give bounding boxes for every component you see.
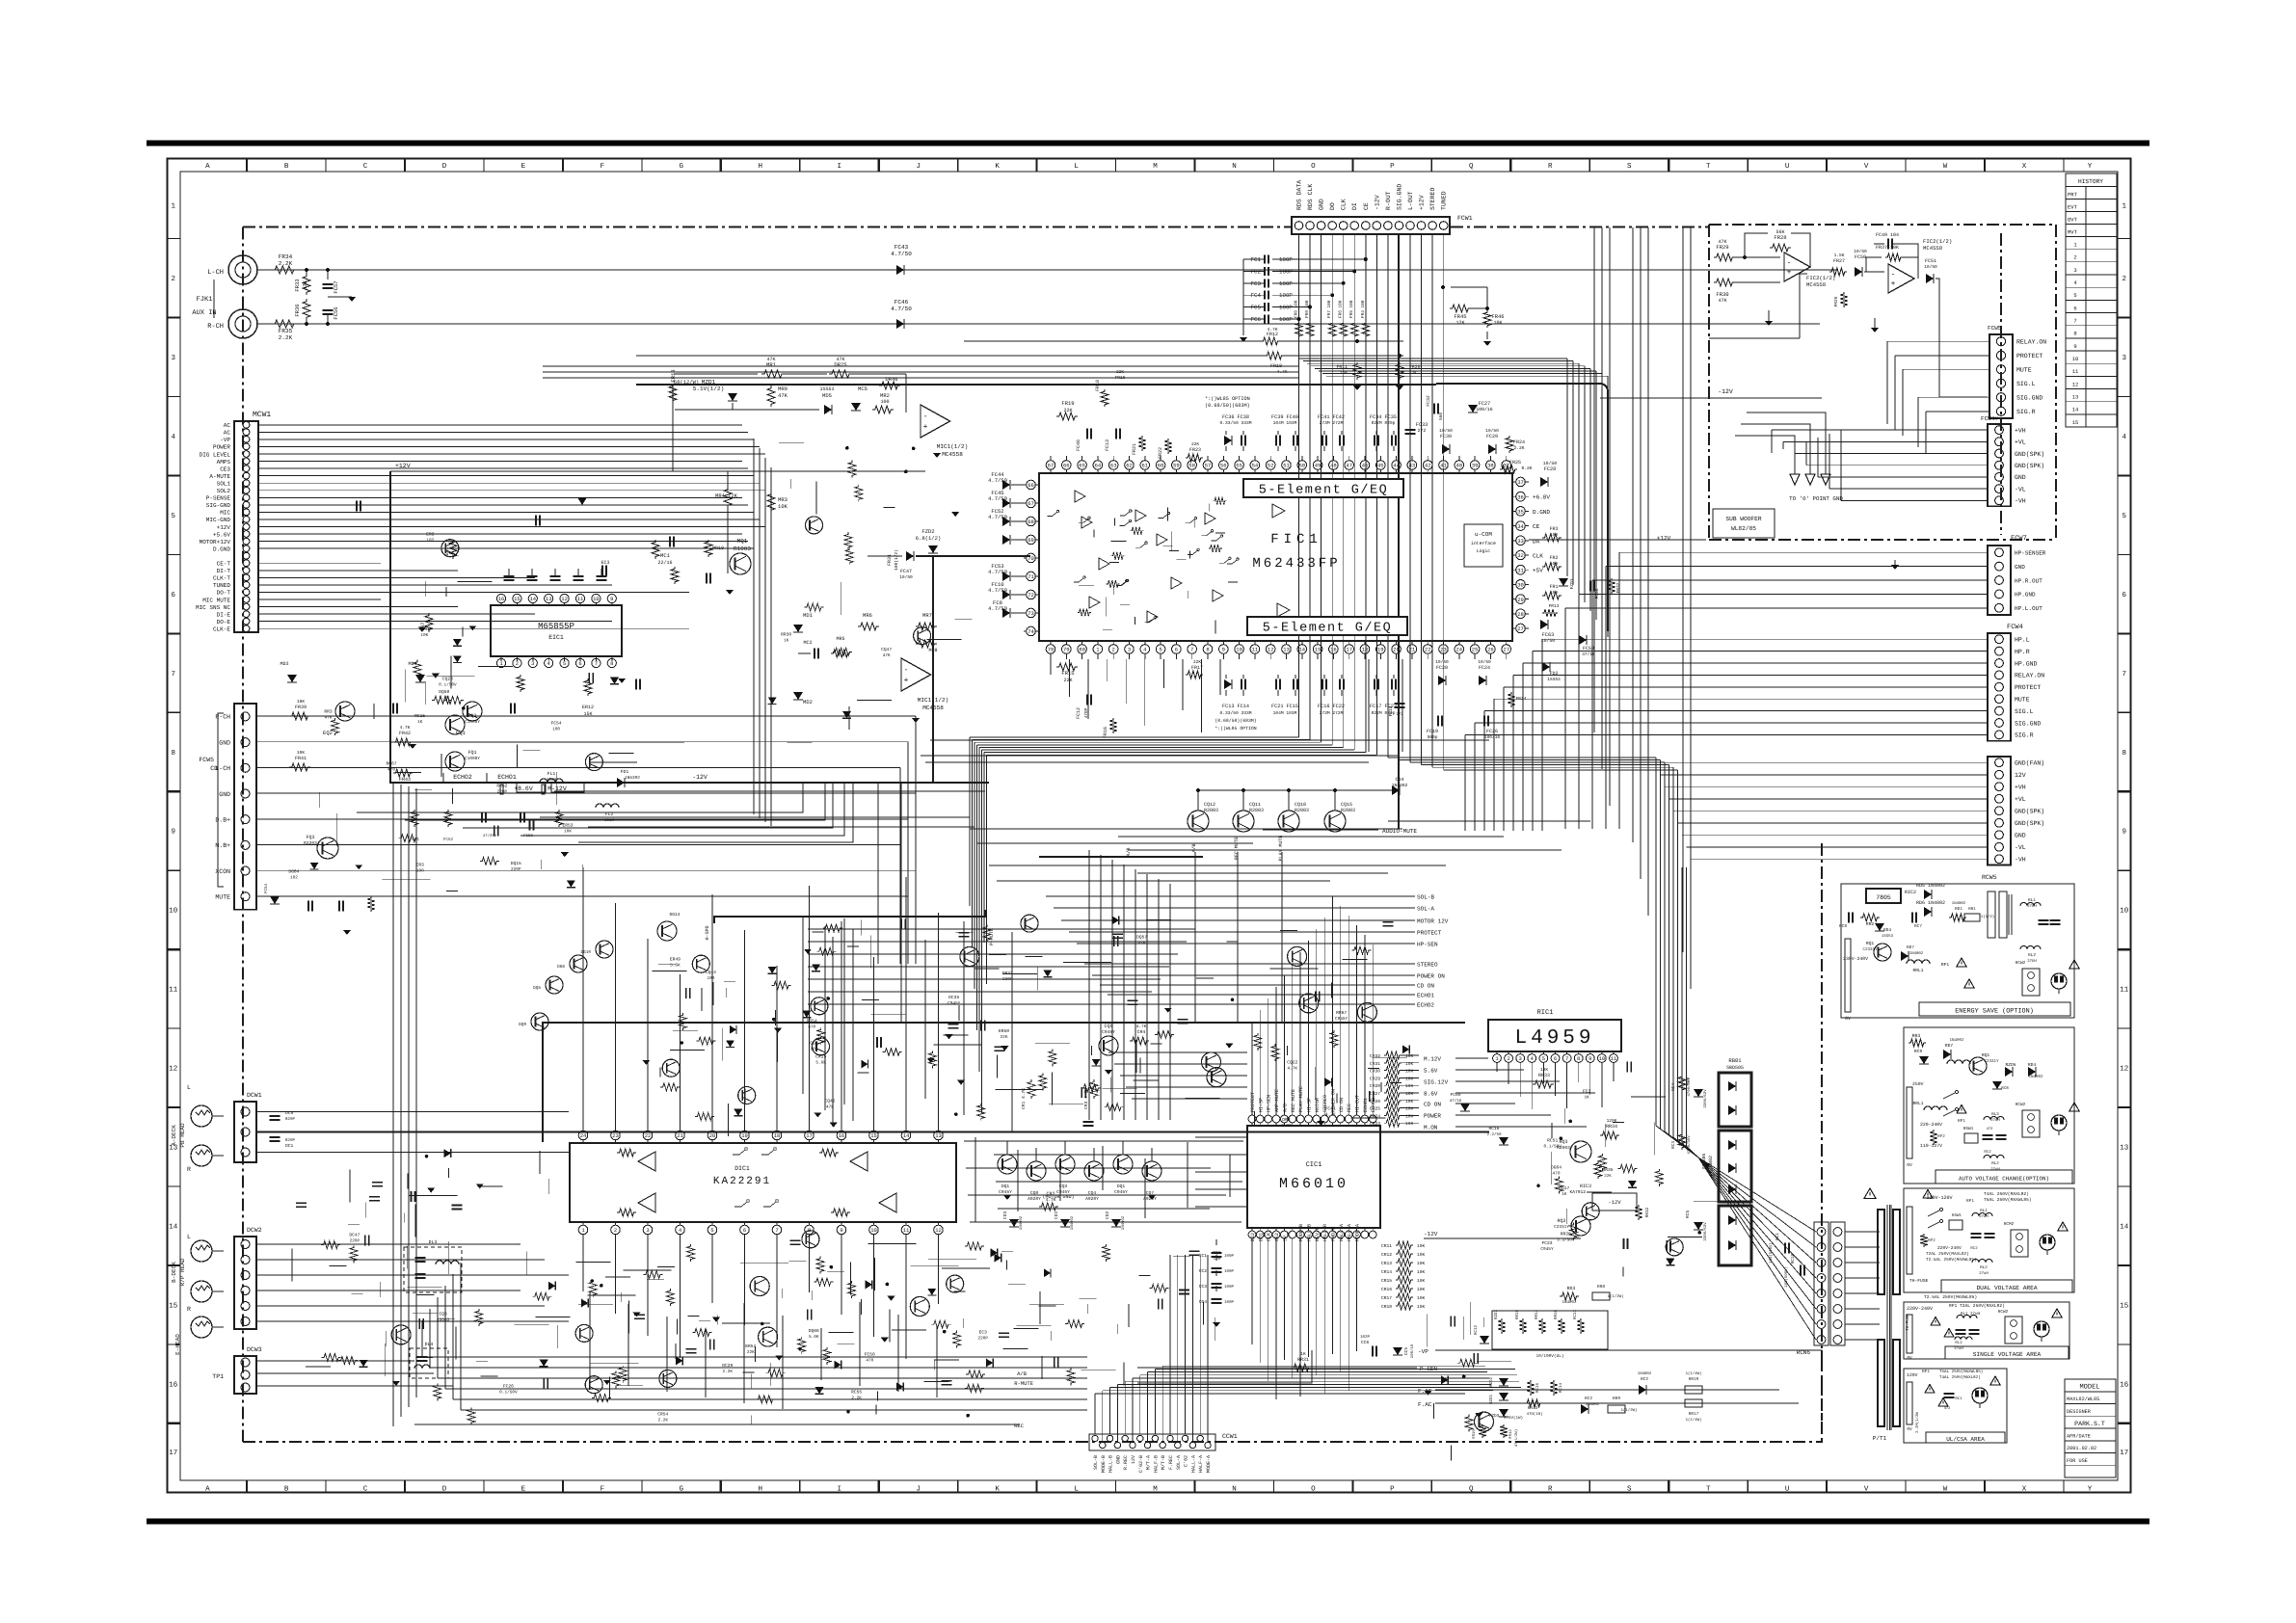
svg-text:14: 14: [2120, 1224, 2129, 1232]
svg-text:1N4002: 1N4002: [2028, 1075, 2043, 1079]
svg-text:GND(SPK): GND(SPK): [2015, 809, 2044, 815]
svg-text:GND: GND: [219, 739, 230, 746]
svg-text:C: C: [363, 1485, 368, 1494]
svg-text:17: 17: [806, 1132, 813, 1139]
svg-text:AMP-MUTE: AMP-MUTE: [1274, 1089, 1280, 1112]
svg-text:E: E: [521, 1486, 526, 1494]
svg-text:RD4: RD4: [1883, 928, 1891, 933]
svg-text:EC3: EC3: [601, 560, 609, 566]
svg-text:OVT: OVT: [2068, 217, 2078, 224]
svg-text:11: 11: [169, 987, 178, 995]
svg-text:KA22291: KA22291: [713, 1176, 771, 1187]
svg-text:61: 61: [1141, 463, 1148, 469]
svg-text:100: 100: [416, 869, 424, 874]
svg-text:17: 17: [1346, 647, 1352, 653]
svg-text:B: B: [284, 163, 289, 171]
svg-text:23: 23: [612, 1132, 619, 1139]
svg-text:2: 2: [1507, 1055, 1509, 1062]
svg-text:10/50: 10/50: [1439, 428, 1453, 434]
svg-text:58: 58: [1188, 463, 1195, 469]
svg-text:L: L: [187, 1084, 191, 1091]
svg-text:TUNED: TUNED: [213, 582, 230, 589]
svg-text:7: 7: [1190, 647, 1193, 653]
svg-text:R-MUTE: R-MUTE: [1014, 1380, 1034, 1387]
svg-text:10uH: 10uH: [604, 818, 615, 823]
svg-text:42: 42: [1425, 463, 1431, 469]
svg-text:DQ5: DQ5: [533, 986, 541, 991]
svg-text:120V: 120V: [1907, 1372, 1918, 1378]
svg-text:2.2K: 2.2K: [851, 1396, 862, 1400]
svg-text:FC54: FC54: [551, 720, 562, 726]
svg-text:10K: 10K: [1405, 1076, 1414, 1081]
svg-text:1K: 1K: [1585, 1095, 1590, 1100]
svg-text:M.ON: M.ON: [1424, 1125, 1438, 1131]
svg-text:CR16: CR16: [1381, 1287, 1392, 1292]
svg-text:6: 6: [172, 591, 176, 599]
svg-text:DI: DI: [1351, 202, 1358, 210]
svg-text:1.5K: 1.5K: [1834, 253, 1845, 258]
svg-text:5V: 5V: [1282, 1236, 1288, 1241]
svg-text:DI-E: DI-E: [217, 611, 231, 618]
svg-text:2.2K: 2.2K: [723, 1370, 734, 1374]
svg-text:C: C: [363, 162, 368, 171]
svg-text:22: 22: [645, 1132, 652, 1139]
svg-text:10K: 10K: [1417, 1278, 1426, 1284]
svg-text:MODE.A: MODE.A: [1355, 1224, 1361, 1241]
svg-text:CR11: CR11: [1381, 1243, 1392, 1249]
svg-text:CD ON: CD ON: [1339, 1098, 1345, 1112]
svg-text:1K: 1K: [1562, 1192, 1567, 1197]
svg-text:REC MUTE: REC MUTE: [1234, 837, 1240, 860]
svg-text:EVT: EVT: [2068, 204, 2078, 211]
svg-text:RC14: RC14: [1559, 1382, 1563, 1393]
svg-text:RC3: RC3: [1671, 1141, 1676, 1149]
svg-text:CE-T: CE-T: [217, 561, 231, 568]
svg-text:67: 67: [1028, 500, 1034, 507]
svg-text:9: 9: [610, 596, 613, 602]
svg-text:MAXL82/WL85: MAXL82/WL85: [2067, 1397, 2099, 1402]
svg-text:N: N: [1232, 163, 1237, 171]
svg-text:CD3: CD3: [1002, 1211, 1008, 1220]
svg-text:110-127V: 110-127V: [1920, 1143, 1942, 1149]
svg-text:DL4: DL4: [425, 1342, 434, 1347]
svg-text:PROTECT: PROTECT: [1250, 1092, 1256, 1112]
svg-text:DO-T: DO-T: [217, 590, 231, 597]
svg-text:100P: 100P: [1224, 1254, 1235, 1259]
svg-text:49: 49: [1315, 463, 1322, 469]
svg-text:C2331Y: C2331Y: [1862, 947, 1878, 952]
svg-text:V: V: [1864, 1486, 1869, 1494]
svg-text:10K: 10K: [778, 503, 788, 510]
svg-text:10K: 10K: [1417, 1304, 1426, 1310]
svg-text:7: 7: [775, 1227, 778, 1234]
svg-text:FC50: FC50: [1855, 254, 1866, 260]
svg-text:V: V: [1864, 163, 1869, 171]
svg-text:10: 10: [870, 1227, 877, 1234]
svg-text:C945Y: C945Y: [1114, 1189, 1128, 1195]
svg-text:CR25: CR25: [1370, 1106, 1380, 1112]
svg-text:DQ66: DQ66: [809, 1328, 819, 1334]
svg-text:A/B: A/B: [1126, 847, 1132, 856]
svg-text:FC41: FC41: [1325, 1105, 1336, 1111]
svg-text:6: 6: [1175, 647, 1178, 653]
svg-text:220P: 220P: [1002, 977, 1013, 982]
svg-text:+5.6V: +5.6V: [213, 531, 230, 538]
svg-text:CR23: CR23: [1370, 1121, 1380, 1127]
svg-text:64: 64: [1095, 463, 1102, 469]
svg-text:102: 102: [426, 538, 434, 543]
svg-text:R2203: R2203: [304, 840, 317, 846]
svg-text:RC2: RC2: [1984, 1150, 1991, 1155]
svg-text:M65855P: M65855P: [538, 622, 574, 631]
svg-text:H: H: [759, 163, 763, 171]
svg-text:9: 9: [2122, 828, 2127, 837]
svg-text:MUTE: MUTE: [2016, 367, 2032, 374]
svg-text:+VH: +VH: [2015, 427, 2026, 434]
svg-text:54: 54: [1252, 463, 1259, 469]
svg-text:1K: 1K: [1300, 1352, 1306, 1357]
svg-text:C1008Y: C1008Y: [465, 757, 480, 761]
svg-text:FC56: FC56: [333, 306, 339, 319]
svg-text:RF1: RF1: [1966, 1199, 1974, 1204]
svg-text:MR3: MR3: [778, 496, 788, 503]
svg-text:100P: 100P: [1224, 1269, 1235, 1274]
svg-text:MR6: MR6: [863, 612, 872, 619]
svg-text:H-SPD: H-SPD: [705, 925, 710, 940]
svg-text:+12V: +12V: [217, 524, 231, 531]
svg-text:5: 5: [1542, 1055, 1545, 1062]
svg-text:DC35: DC35: [948, 995, 959, 1000]
svg-text:100/16: 100/16: [1484, 734, 1501, 740]
svg-text:3: 3: [1519, 1055, 1522, 1062]
svg-text:HALF-A: HALF-A: [1198, 1455, 1204, 1473]
svg-text:FR3: FR3: [1549, 526, 1558, 532]
svg-text:PROTECT: PROTECT: [1417, 930, 1442, 937]
svg-text:SOL-A: SOL-A: [1176, 1455, 1182, 1470]
svg-text:44: 44: [1393, 463, 1400, 469]
svg-text:21: 21: [1409, 647, 1416, 653]
svg-text:1N4002: 1N4002: [1562, 1300, 1577, 1305]
svg-text:RC2: RC2: [1585, 1397, 1592, 1401]
svg-text:L4959: L4959: [1514, 1027, 1594, 1050]
svg-text:7: 7: [1565, 1055, 1568, 1062]
svg-text:U: U: [1785, 1486, 1790, 1494]
svg-text:MUTE: MUTE: [215, 894, 230, 901]
svg-text:+VL: +VL: [2015, 796, 2026, 803]
svg-text:FC3: FC3: [1251, 280, 1262, 287]
svg-text:HP.L: HP.L: [2015, 637, 2030, 644]
svg-text:MC4558: MC4558: [942, 451, 963, 458]
svg-text:60: 60: [1158, 463, 1164, 469]
svg-text:11: 11: [2072, 368, 2079, 375]
svg-text:25: 25: [1472, 647, 1479, 653]
svg-text:PB HEAD: PB HEAD: [179, 1123, 186, 1148]
svg-text:AC: AC: [224, 422, 231, 429]
svg-text:16: 16: [839, 1132, 845, 1139]
svg-text:3: 3: [1128, 647, 1131, 653]
svg-text:104M 103M: 104M 103M: [1273, 420, 1297, 426]
svg-text:CQ5: CQ5: [1104, 1024, 1112, 1029]
svg-text:FC30: FC30: [1440, 434, 1452, 439]
svg-text:14: 14: [1298, 647, 1305, 653]
svg-text:RR33: RR33: [1538, 1073, 1550, 1078]
svg-text:RR52: RR52: [496, 783, 507, 788]
svg-text:RD5 1N4002: RD5 1N4002: [1916, 883, 1945, 889]
svg-text:RL2: RL2: [1980, 1265, 1988, 1270]
svg-text:CQ23: CQ23: [442, 676, 453, 681]
svg-text:10K: 10K: [1405, 1113, 1414, 1119]
svg-text:RB01: RB01: [1728, 1057, 1742, 1064]
svg-text:20: 20: [1393, 647, 1400, 653]
svg-text:27uH: 27uH: [1990, 1118, 2000, 1123]
svg-text:C945Y: C945Y: [999, 1189, 1012, 1195]
svg-text:1N4002: 1N4002: [1070, 1215, 1075, 1230]
svg-text:67: 67: [1048, 463, 1055, 469]
svg-text:FC41 FC42: FC41 FC42: [1318, 414, 1345, 420]
svg-text:1N4002: 1N4002: [1952, 901, 1966, 906]
svg-text:A/B: A/B: [1017, 1370, 1028, 1377]
svg-text:RR3: RR3: [324, 709, 333, 715]
svg-text:-VP: -VP: [220, 437, 230, 443]
svg-text:2.2K: 2.2K: [279, 334, 293, 341]
svg-text:DR8: DR8: [1282, 1117, 1291, 1123]
svg-text:GND(SPK): GND(SPK): [2015, 451, 2044, 458]
svg-text:10UH: 10UH: [547, 778, 557, 783]
svg-text:2.2K: 2.2K: [1281, 1124, 1292, 1129]
svg-text:220P: 220P: [511, 867, 521, 872]
svg-text:+VL: +VL: [2015, 439, 2026, 446]
svg-text:40: 40: [1455, 463, 1462, 469]
svg-text:FC58: FC58: [523, 834, 533, 838]
svg-text:1: 1: [2122, 202, 2127, 210]
svg-text:100P: 100P: [1224, 1300, 1235, 1305]
svg-text:RRL1: RRL1: [1912, 968, 1923, 973]
svg-text:FC26: FC26: [1486, 729, 1498, 734]
svg-text:+: +: [923, 423, 928, 432]
svg-text:52: 52: [1268, 463, 1274, 469]
svg-text:0.1/50V: 0.1/50V: [499, 1390, 518, 1396]
svg-text:A: A: [205, 1486, 210, 1494]
svg-text:FR25: FR25: [1509, 460, 1521, 466]
svg-text:8.6V: 8.6V: [1424, 1091, 1438, 1098]
svg-text:FC4: FC4: [1251, 292, 1262, 299]
svg-text:RSW1: RSW1: [1952, 1213, 1962, 1218]
svg-text:HP.GND: HP.GND: [2015, 660, 2038, 667]
svg-text:FWD/R: FWD/R: [1331, 1227, 1337, 1241]
svg-text:A-DECK: A-DECK: [171, 1125, 177, 1146]
svg-text:AMPS: AMPS: [217, 459, 231, 466]
svg-text:F.AC: F.AC: [1418, 1401, 1432, 1408]
svg-text:SIG.L: SIG.L: [2016, 381, 2036, 387]
svg-text:100P: 100P: [1279, 268, 1293, 275]
svg-text:MC4558: MC4558: [1923, 245, 1942, 252]
svg-text:4: 4: [2122, 434, 2127, 441]
svg-text:T2AL 250V(MAXL82): T2AL 250V(MAXL82): [1926, 1251, 1969, 1257]
svg-text:FIC1: FIC1: [1270, 532, 1322, 547]
svg-text:A/B: A/B: [1191, 843, 1197, 852]
svg-text:HALF.R: HALF.R: [1322, 1224, 1328, 1241]
svg-text:FC52: FC52: [443, 838, 454, 842]
svg-text:FC50: FC50: [865, 1351, 875, 1357]
svg-text:DQ17: DQ17: [1559, 1185, 1569, 1191]
svg-text:FC32: FC32: [1426, 395, 1431, 407]
svg-text:10: 10: [169, 907, 178, 916]
svg-text:RC12: RC12: [1474, 1324, 1479, 1335]
svg-text:41: 41: [1440, 463, 1447, 469]
svg-text:KA7912: KA7912: [1569, 1189, 1586, 1195]
svg-text:18: 18: [774, 1132, 781, 1139]
svg-text:2: 2: [2122, 275, 2127, 283]
svg-text:0V: 0V: [1907, 1356, 1912, 1361]
svg-text:CLK: CLK: [1341, 199, 1348, 210]
svg-text:CLK1: CLK1: [1267, 1230, 1272, 1241]
svg-text:Q: Q: [1469, 162, 1474, 171]
svg-text:FC60: FC60: [1450, 1092, 1460, 1098]
svg-text:220-240V: 220-240V: [1920, 1122, 1942, 1128]
svg-text:M/T-A: M/T-A: [1146, 1455, 1152, 1470]
svg-text:-VL: -VL: [2015, 844, 2026, 851]
svg-text:FCW5: FCW5: [1988, 325, 2002, 332]
svg-text:6: 6: [1554, 1055, 1557, 1062]
svg-text:822M 820p: 822M 820p: [1372, 420, 1396, 426]
svg-text:CR28: CR28: [1370, 1083, 1380, 1089]
svg-text:13: 13: [546, 596, 552, 602]
svg-text:MD5: MD5: [822, 392, 832, 399]
svg-text:10/50: 10/50: [1854, 249, 1867, 254]
svg-text:10/50: 10/50: [1924, 264, 1937, 270]
svg-text:11: 11: [2120, 987, 2129, 995]
svg-text:33: 33: [1517, 538, 1524, 545]
svg-text:MC2: MC2: [803, 640, 812, 646]
svg-text:100: 100: [880, 399, 889, 405]
svg-text:102P: 102P: [1360, 1335, 1371, 1340]
svg-text:ER57: ER57: [745, 1344, 756, 1349]
svg-text:12: 12: [935, 1227, 942, 1234]
svg-text:RC6: RC6: [1685, 1078, 1691, 1086]
svg-text:DG10: DG10: [580, 950, 591, 955]
svg-text:DQ1: DQ1: [1117, 1184, 1126, 1189]
svg-text:SIG.GND: SIG.GND: [1397, 184, 1403, 210]
svg-text:16: 16: [169, 1380, 178, 1389]
svg-text:M.12V: M.12V: [1424, 1056, 1441, 1063]
svg-text:RCW2: RCW2: [1998, 1310, 2009, 1315]
svg-text:10: 10: [2120, 907, 2129, 916]
svg-text:14: 14: [169, 1224, 178, 1232]
svg-text:CE: CE: [1363, 202, 1370, 210]
svg-text:FR2: FR2: [1549, 555, 1558, 561]
svg-text:RDS DATA: RDS DATA: [1296, 180, 1303, 210]
svg-text:10/50: 10/50: [1543, 461, 1558, 466]
svg-text:80: 80: [1079, 647, 1085, 653]
svg-text:103(500V): 103(500V): [1769, 1242, 1774, 1264]
svg-text:O: O: [1311, 162, 1316, 171]
svg-text:5: 5: [2073, 292, 2076, 299]
svg-text:+: +: [1891, 280, 1896, 289]
svg-text:10K: 10K: [1417, 1269, 1426, 1275]
svg-text:+VH: +VH: [2015, 785, 2026, 791]
svg-text:DQ9: DQ9: [519, 1023, 526, 1027]
svg-text:74: 74: [1028, 628, 1034, 635]
svg-text:PARK.S.T: PARK.S.T: [2074, 1421, 2105, 1427]
svg-text:HALF.A: HALF.A: [1347, 1224, 1352, 1241]
svg-text:DO: DO: [1329, 202, 1336, 210]
svg-text:8.2K: 8.2K: [1521, 466, 1532, 471]
svg-text:5: 5: [1159, 647, 1161, 653]
svg-text:L: L: [1074, 1486, 1079, 1494]
svg-text:FC47: FC47: [900, 569, 912, 574]
svg-text:100: 100: [1550, 561, 1558, 567]
svg-text:DO-E: DO-E: [217, 619, 231, 625]
svg-text:SIG.GND: SIG.GND: [2015, 720, 2041, 727]
svg-text:DA: DA: [1533, 538, 1540, 545]
svg-text:RL2: RL2: [1955, 1341, 1962, 1345]
svg-text:MC4558: MC4558: [1806, 281, 1826, 288]
svg-text:2.2M(1/2W: 2.2M(1/2W: [1915, 1412, 1920, 1433]
svg-text:interface: interface: [1471, 541, 1496, 546]
svg-text:100/16: 100/16: [1476, 407, 1492, 412]
svg-text:M62433FP: M62433FP: [1252, 556, 1340, 572]
svg-text:RD1: RD1: [1955, 907, 1962, 912]
svg-text:27uH: 27uH: [1990, 1167, 2000, 1172]
svg-text:35: 35: [1517, 509, 1524, 516]
svg-text:REC: REC: [1347, 1104, 1352, 1112]
svg-text:CD ON: CD ON: [1424, 1102, 1441, 1108]
svg-text:I: I: [837, 1486, 841, 1494]
svg-text:2: 2: [1112, 647, 1115, 653]
svg-text:10K: 10K: [1417, 1252, 1426, 1258]
svg-text:220P: 220P: [350, 1238, 360, 1243]
svg-text:12V: 12V: [1131, 1455, 1136, 1464]
svg-text:12K: 12K: [728, 492, 738, 499]
svg-text:2: 2: [172, 275, 176, 283]
svg-text:RF1: RF1: [1958, 1119, 1965, 1124]
svg-text:470: 470: [866, 1358, 873, 1363]
svg-text:8: 8: [2073, 331, 2076, 337]
svg-text:FOR USE: FOR USE: [2067, 1458, 2088, 1464]
svg-text:RR8: RR8: [1597, 1285, 1605, 1290]
svg-text:FR21: FR21: [1132, 443, 1137, 455]
svg-text:M: M: [1153, 163, 1158, 171]
svg-text:R1003: R1003: [734, 545, 751, 552]
svg-text:P: P: [1390, 163, 1395, 171]
svg-text:RD6 1N4002: RD6 1N4002: [1916, 900, 1945, 906]
svg-text:37: 37: [1517, 479, 1524, 486]
svg-text:9: 9: [2073, 343, 2076, 350]
svg-text:10K: 10K: [297, 750, 305, 756]
svg-text:FR11: FR11: [1336, 364, 1348, 370]
svg-text:24: 24: [580, 1132, 587, 1139]
svg-text:W: W: [1943, 163, 1948, 171]
svg-text:1N4002: 1N4002: [1121, 1215, 1126, 1230]
svg-text:100: 100: [1213, 1257, 1220, 1262]
svg-text:47(1/2W): 47(1/2W): [1514, 1429, 1519, 1447]
svg-text:D: D: [442, 163, 447, 171]
svg-text:10K: 10K: [1405, 1083, 1414, 1089]
svg-text:820P: 820P: [285, 1138, 296, 1143]
svg-text:1N4002: 1N4002: [1909, 951, 1924, 956]
svg-text:RQ1: RQ1: [1866, 941, 1875, 946]
svg-text:RC8: RC8: [2001, 1086, 2009, 1091]
svg-text:FQ2: FQ2: [467, 713, 476, 719]
svg-text:100P: 100P: [1279, 316, 1293, 323]
svg-text:12V: 12V: [2015, 772, 2026, 779]
svg-text:DUAL VOLTAGE AREA: DUAL VOLTAGE AREA: [1976, 1285, 2037, 1291]
svg-text:MQ1: MQ1: [737, 538, 748, 545]
svg-text:17: 17: [2120, 1450, 2128, 1457]
svg-text:SINGLE VOLTAGE AREA: SINGLE VOLTAGE AREA: [1973, 1351, 2042, 1358]
svg-text:FR35: FR35: [279, 328, 293, 334]
svg-text:10/50: 10/50: [899, 574, 913, 580]
